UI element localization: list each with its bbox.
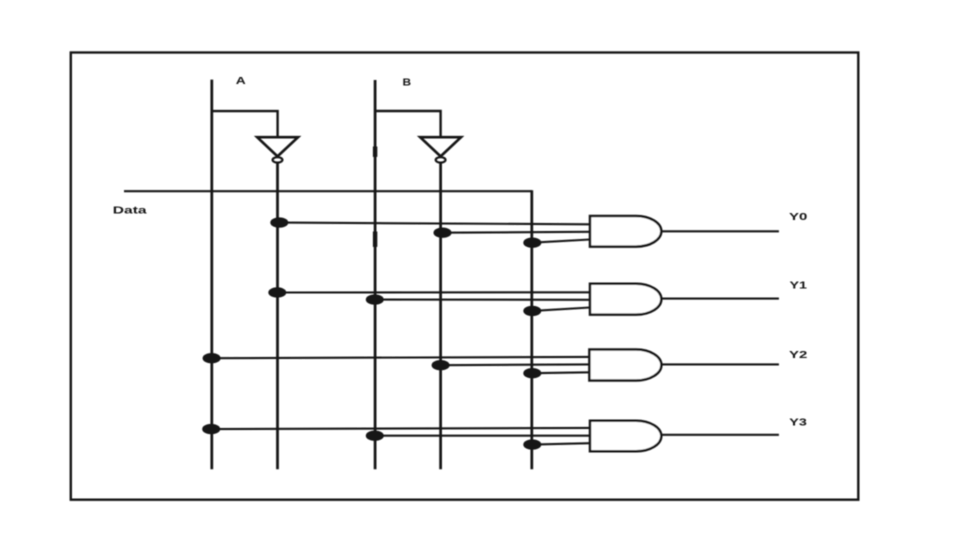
wire row Y2 from A xyxy=(211,357,589,358)
svg-text:A: A xyxy=(236,75,247,87)
junction dot row Y1 on NOT-A xyxy=(268,287,286,297)
junction dot row Y1 on Data xyxy=(523,306,541,316)
wire B branch to inverter xyxy=(375,111,441,137)
wire row Y3 from A xyxy=(211,428,590,429)
wire A branch to inverter xyxy=(212,111,278,136)
junction dot row Y2 on NOT-B xyxy=(432,360,450,370)
wire output Y2 xyxy=(661,363,779,365)
wire B vertical trunk xyxy=(374,80,377,469)
wire row Y0 from NOT-B xyxy=(443,231,590,234)
wire row Y3 from B xyxy=(375,435,591,437)
inverter U1 (A) triangle xyxy=(257,137,298,156)
inverter U2 (B) triangle xyxy=(420,137,461,156)
wire output Y1 xyxy=(661,298,779,300)
wire A vertical trunk xyxy=(210,80,213,470)
wire B trunk thick mark 2 xyxy=(373,232,377,247)
junction dot row Y0 on Data xyxy=(523,238,541,248)
junction dot row Y2 on Data xyxy=(523,368,541,378)
wire row Y1 from B xyxy=(374,299,590,301)
wire row Y0 from Data xyxy=(532,240,590,243)
AND gate G1 (Y0) xyxy=(590,216,661,247)
wire row Y1 from Data xyxy=(532,308,590,311)
inverter U2 bubble xyxy=(436,157,446,162)
wire output Y0 xyxy=(661,230,779,232)
junction dot row Y3 on B xyxy=(366,431,384,441)
junction dot row Y2 on A xyxy=(203,353,221,363)
wire output Y3 xyxy=(661,434,779,436)
wire row Y0 from NOT-A xyxy=(279,223,590,225)
svg-text:B: B xyxy=(403,76,412,88)
wire row Y1 from NOT-A xyxy=(277,291,590,293)
wire NOT-B vertical trunk xyxy=(439,163,442,469)
junction dot row Y0 on NOT-A xyxy=(270,217,288,227)
svg-text:Y2: Y2 xyxy=(789,349,808,361)
wire row Y3 from Data xyxy=(532,443,590,444)
AND gate G4 (Y3) xyxy=(590,421,661,452)
junction dot row Y3 on A xyxy=(202,424,220,434)
junction dot row Y3 on Data xyxy=(523,439,541,449)
AND gate G3 (Y2) xyxy=(589,349,661,380)
svg-text:Y3: Y3 xyxy=(789,417,807,429)
svg-text:Y0: Y0 xyxy=(789,211,808,223)
wire NOT-A vertical trunk xyxy=(276,163,279,469)
AND gate G2 (Y1) xyxy=(590,284,661,315)
svg-text:Y1: Y1 xyxy=(790,280,808,292)
inverter U1 bubble xyxy=(273,157,283,162)
junction dot row Y1 on B xyxy=(366,294,384,304)
wire B trunk thick mark 1 xyxy=(373,147,377,157)
wire row Y2 from Data xyxy=(533,371,590,374)
svg-text:Data: Data xyxy=(113,205,147,216)
wire Data vertical trunk xyxy=(530,190,533,469)
junction dot row Y0 on NOT-B xyxy=(434,228,452,238)
wire row Y2 from NOT-B xyxy=(440,363,589,366)
wire Data horizontal xyxy=(124,190,532,192)
